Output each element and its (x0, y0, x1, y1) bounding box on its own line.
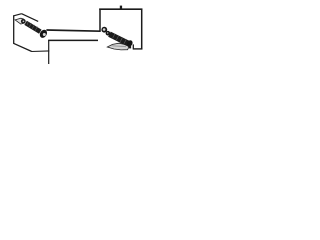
panel top edge (99, 8, 142, 10)
panel hanger tick (120, 6, 122, 9)
right screw head outer ring (101, 27, 107, 33)
right screw ribs (113, 34, 127, 44)
right screw end cap (126, 39, 134, 47)
floor edge (31, 50, 49, 53)
left screw ribs (27, 22, 38, 31)
left anchor flange ring (21, 19, 26, 24)
panel bottom edge (133, 48, 142, 50)
panel left edge (99, 9, 101, 32)
wall left edge (13, 15, 15, 43)
wall top front edge (13, 14, 21, 16)
wall top back edge (22, 14, 39, 22)
rail bottom line (48, 39, 98, 41)
left screw head highlight (43, 33, 46, 36)
left screw head (38, 28, 48, 39)
right screw head outer hole (103, 28, 106, 31)
right anchor wedge shading (112, 45, 127, 48)
left anchor flag (15, 18, 24, 24)
panel inner corner vertical (132, 44, 134, 49)
right screw head inner dot (107, 32, 108, 33)
right screw shaft (109, 34, 128, 43)
left screw shaft (26, 23, 41, 32)
right screw tip tick (129, 46, 131, 49)
panel right edge (141, 9, 143, 50)
left anchor flange hole (23, 20, 25, 22)
right screw head inner ring (106, 31, 111, 36)
wall bottom edge (13, 43, 31, 51)
rail top line (46, 30, 100, 31)
floor front vertical (48, 40, 50, 65)
background (0, 0, 150, 64)
right anchor wedge (107, 43, 129, 50)
